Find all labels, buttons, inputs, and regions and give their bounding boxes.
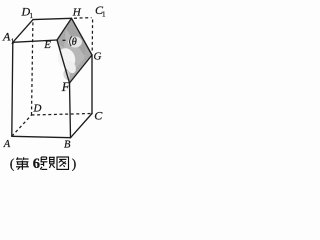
svg-text:1: 1 (102, 11, 106, 19)
ghost edge C1-G (91, 20, 93, 51)
edge A1-D1 (13, 20, 33, 43)
section edge F-E (57, 40, 70, 83)
edge A-B (12, 136, 71, 137)
svg-text:D: D (33, 102, 42, 114)
edge A-A1 (12, 42, 13, 136)
svg-text:θ: θ (72, 37, 77, 48)
darker shading patches (66, 18, 92, 55)
svg-text:B: B (64, 139, 71, 150)
char tu2 (图) (57, 157, 69, 169)
edge A1-E (13, 40, 57, 42)
svg-text:1: 1 (11, 37, 15, 45)
edge B-C (71, 114, 93, 138)
svg-text:G: G (94, 50, 102, 62)
svg-text:): ) (72, 157, 77, 172)
shaded section EHGF (57, 18, 92, 83)
ghost edge H-C1 (74, 17, 92, 20)
svg-text:(: ( (10, 157, 15, 172)
background (0, 0, 109, 176)
svg-text:E: E (43, 39, 51, 51)
white blob inside shading (55, 46, 78, 72)
edge B-F (70, 83, 71, 138)
caption (第6题图) (10, 156, 77, 172)
svg-text:C: C (94, 108, 103, 122)
angle arc theta (70, 36, 72, 46)
section edge E-H (57, 18, 72, 40)
svg-text:A: A (3, 139, 11, 150)
hidden edge D-D1 (32, 22, 33, 116)
hidden edge A-D (12, 115, 32, 136)
char ti2 (题) (40, 157, 55, 169)
edge C-G (91, 55, 93, 114)
ghost dash from E (63, 39, 68, 41)
svg-text:H: H (72, 6, 82, 18)
svg-text:6: 6 (33, 156, 40, 172)
svg-text:F: F (61, 79, 71, 94)
svg-text:1: 1 (30, 12, 34, 20)
char di4 (第) (16, 157, 29, 170)
section edge G-F (70, 55, 93, 83)
section edge H-G (72, 18, 93, 55)
edge D1-H (33, 18, 72, 19)
svg-text:A: A (2, 30, 11, 44)
hidden edge D-C (32, 114, 93, 116)
